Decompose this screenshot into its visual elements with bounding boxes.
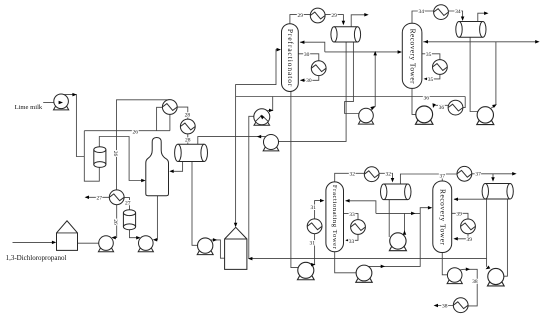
svg-text:29: 29 — [297, 13, 303, 19]
svg-text:30: 30 — [304, 52, 310, 58]
tower T2 Recovery Tower (top right) — [402, 23, 422, 88]
cylinder CB — [123, 210, 135, 230]
wire 1,3-dichloropropanol feed — [13, 241, 54, 243]
svg-text:37: 37 — [475, 171, 481, 177]
wire HX37 outlet header with branch to drum D37 — [472, 173, 515, 175]
pump P13 — [358, 108, 373, 124]
arrow compressor discharge — [269, 109, 273, 113]
wire tower T2 reboiler supply stream 35 — [422, 54, 440, 60]
wire pump P6f discharge riser through HX31 — [312, 234, 315, 265]
pump P10 — [487, 268, 504, 285]
svg-text:36: 36 — [424, 95, 430, 101]
wire lime milk inlet — [43, 102, 58, 104]
wire drum D32 bottoms to pump P8 — [388, 200, 390, 237]
pump P4 — [197, 238, 213, 255]
svg-text:1,3-Dichloropropanol: 1,3-Dichloropropanol — [6, 254, 67, 262]
svg-text:Lime milk: Lime milk — [15, 104, 43, 111]
heat exchanger X35 — [433, 60, 448, 75]
wire fractionator T3 feed stream 31 — [315, 201, 323, 219]
wire stream 26 vertical x=84.3 to drum CA bottom — [84, 131, 99, 182]
arrow tower T4 reflux — [454, 197, 458, 201]
compressor C1 — [254, 109, 270, 125]
pump P5m — [263, 134, 279, 150]
svg-text:38: 38 — [472, 279, 478, 285]
wire pump P5m suction from drum D29 bottom — [279, 42, 347, 141]
arrow P1 discharge — [72, 93, 76, 97]
wire HX38 product out stream 38 — [436, 305, 453, 307]
svg-text:38: 38 — [442, 304, 448, 310]
wire tower T4 bottoms to pump P9 — [442, 252, 447, 274]
wire HX34 outlet into drum D34 — [448, 11, 462, 20]
svg-text:34: 34 — [455, 9, 461, 15]
arrow pump P6f discharge — [311, 263, 315, 267]
arrow stream 27 out — [85, 196, 89, 200]
wire pump P5m to drum D28 top — [198, 137, 266, 145]
wire compressor discharge riser — [268, 97, 273, 111]
arrow into drum D29 — [342, 21, 346, 25]
pump P3 — [138, 236, 153, 252]
arrow vapor out right of HX37 line — [512, 172, 516, 176]
arrow into tower T3 feed — [320, 199, 324, 203]
svg-text:31: 31 — [310, 205, 316, 211]
wire pump P4 discharge to hopper left — [211, 240, 225, 258]
wire HX36 to pump P11 stream 36 — [433, 104, 448, 106]
wire drum D37 right leg to pump P10 right — [504, 199, 507, 276]
arrow product out right top — [535, 40, 539, 44]
wire tank to pump P2 — [78, 242, 99, 244]
arrow into tower T4 feed — [428, 206, 432, 210]
wire HX30 return stream 30 — [300, 76, 318, 81]
wire recovery tower T2 feed header y=51.9 — [325, 51, 401, 53]
arrow pump P7f discharge — [381, 265, 385, 269]
svg-text:35: 35 — [428, 77, 434, 83]
pump P9 — [447, 268, 462, 284]
wire HX27 right to cylinder CB — [124, 198, 130, 210]
wire drum D34 bottoms to pump P12 — [470, 37, 477, 112]
arrow tower T3 reflux — [345, 199, 349, 203]
heat exchanger X27 — [109, 190, 124, 205]
wire drum D29 vent — [351, 15, 367, 27]
heat exchanger X38 — [453, 298, 468, 313]
svg-text:Prefractionator: Prefractionator — [286, 29, 295, 87]
wire header right end into HX36 — [463, 97, 465, 108]
arrow stream 30 return into T1 — [300, 79, 304, 83]
wire drum D37 bottoms left leg to pump P10 — [486, 199, 488, 267]
wire tower T2 overhead stream 34 — [412, 11, 434, 23]
arrow into hopper right — [248, 257, 252, 261]
wire pump P12 discharge riser — [491, 42, 496, 108]
wire HX26 top header from pump line — [117, 100, 170, 190]
arrow pump P13 discharge — [370, 105, 376, 110]
drum CA vertical cylinder — [94, 147, 106, 168]
wire pump P13 discharge riser to feed header — [371, 53, 375, 110]
wire tower T3 reboiler supply stream 33 — [344, 214, 358, 220]
pump P7f — [356, 265, 372, 282]
svg-text:28: 28 — [185, 112, 191, 118]
wire drum CA top to bottle left nozzle — [99, 137, 144, 181]
wire drum D29 bottoms to pump P13 — [345, 42, 359, 114]
arrow into drum D37 — [491, 177, 495, 181]
heat exchanger X39 — [461, 219, 476, 234]
svg-text:39: 39 — [456, 212, 462, 218]
svg-text:32: 32 — [349, 171, 355, 177]
svg-text:26: 26 — [133, 130, 139, 136]
arrow into drum D32 — [391, 178, 395, 182]
arrow product 38 out — [434, 304, 438, 308]
heat exchanger X34 — [434, 5, 449, 20]
tower T3 Fractionating Tower — [326, 182, 344, 252]
svg-text:32: 32 — [385, 172, 391, 178]
svg-text:Recovery Tower: Recovery Tower — [408, 29, 417, 85]
pump P11 — [415, 106, 432, 124]
arrow on line into drum D28 — [257, 135, 261, 139]
heat exchanger X26 — [162, 100, 177, 115]
arrow into prefractionator feed — [277, 48, 281, 52]
wire compressor suction down to hopper right — [249, 116, 254, 258]
arrow into pump P10 left — [485, 265, 491, 270]
heat exchanger X36 — [448, 100, 463, 115]
wire tower T4 reboiler supply stream 39 — [452, 213, 468, 219]
arrow pump P9 discharge — [466, 268, 470, 272]
heat exchanger X29 — [310, 8, 325, 23]
wire HX27 left arrow line stream 27 — [86, 196, 109, 198]
arrow into bottle right — [169, 170, 173, 174]
arrow into hopper apex — [234, 223, 238, 227]
arrow into pump P2 top — [111, 236, 115, 240]
pump P8 — [389, 233, 406, 251]
arrow drum D34 vent out — [484, 11, 488, 15]
wire cylinder CB bottom to pump P3 — [130, 228, 140, 238]
svg-text:30: 30 — [306, 78, 312, 84]
wire pump P1 discharge up-right-down — [61, 95, 84, 157]
arrow pump P12 discharge — [492, 103, 498, 108]
tower T1 Prefractionator — [282, 24, 299, 92]
wire fractionator T3 bottoms to pump P7f — [335, 252, 357, 273]
svg-text:34: 34 — [419, 9, 425, 15]
wire HX27 bottom to pump P2 — [113, 205, 117, 238]
wire HX39 return stream 39 — [455, 234, 468, 239]
heat exchanger X32 — [364, 167, 379, 182]
wire pump P7f discharge to tower T4 feed — [365, 208, 431, 267]
heat exchanger X30 — [311, 61, 326, 76]
heat exchanger X28 — [180, 119, 195, 134]
arrow into bottle left — [141, 179, 145, 183]
svg-text:26: 26 — [112, 219, 118, 225]
wire HX26 right to HX28 stream 28 — [177, 107, 188, 119]
pump P2 — [98, 236, 113, 252]
pump P12 — [477, 107, 494, 125]
arrow pump P4 discharge — [213, 238, 217, 242]
svg-text:33: 33 — [349, 212, 355, 218]
pump P1 lime milk — [54, 94, 69, 110]
wire HX35 return stream 35 — [426, 74, 440, 79]
wire pump P8 discharge riser — [404, 213, 406, 233]
drum D37 — [482, 184, 513, 200]
wire prefractionator reflux y=42.2 — [300, 42, 325, 52]
svg-text:35: 35 — [426, 52, 432, 58]
wire drum D34 vent — [478, 13, 487, 21]
arrow pump P8 discharge up — [403, 230, 407, 234]
tank cone-roof (1,3-dichloropropanol) — [57, 221, 78, 251]
heat exchanger X33 — [351, 220, 366, 235]
hopper crystal tank — [225, 227, 247, 269]
wire prefractionator side reboiler supply stream 30 — [298, 54, 319, 61]
arrow stream 35 return into T2 — [424, 77, 428, 81]
arrow stream 39 return into T4 — [453, 237, 457, 241]
heat exchanger X37 — [457, 166, 472, 181]
arrow into pump P3 right — [153, 238, 157, 242]
wire HX26 bottom leg — [169, 115, 171, 131]
wire drum D32 vapor to HX37 header — [400, 174, 457, 184]
wire HX28 bottom to drum D28 — [187, 134, 189, 145]
wire bottle bottom to pump P3 — [154, 196, 157, 240]
svg-text:33: 33 — [349, 239, 355, 245]
wire pump P9 discharge to HX38 — [460, 269, 477, 306]
arrow into pump P3 top — [136, 236, 140, 240]
arrow prefractionator reflux — [300, 40, 304, 44]
tower T4 Recovery Tower (bottom right) — [433, 181, 452, 253]
wire HX33 return stream 33 — [346, 234, 358, 240]
drum D28 horizontal — [175, 144, 208, 161]
arrow into drum D34 — [461, 17, 465, 21]
wire branch down into drum D37 — [492, 174, 494, 181]
wire HX29 outlet into drum D29 — [325, 15, 343, 24]
arrow drum D29 vent out — [364, 13, 368, 16]
wire reflux product line y=41.8 — [423, 41, 538, 43]
drum D32 — [381, 184, 411, 200]
drum D29 — [331, 27, 361, 42]
svg-text:26: 26 — [112, 151, 118, 157]
wire tower T2 bottoms to pump P11 — [412, 88, 417, 114]
drum D34 — [456, 22, 486, 38]
arrow into pump P11 stream 36 — [431, 103, 436, 108]
svg-text:Fractionating Tower: Fractionating Tower — [331, 185, 338, 250]
wire drum D28 bottom to pump P4 — [192, 162, 198, 246]
svg-text:27: 27 — [125, 201, 131, 207]
svg-text:36: 36 — [439, 105, 445, 111]
heat exchanger X31 — [307, 219, 322, 234]
wire tower T4 overhead riser — [441, 174, 443, 181]
arrow into tower T2 feed — [398, 50, 402, 54]
pump P6f — [297, 262, 314, 279]
wire HX26 left leg — [157, 107, 163, 130]
wire prefractionator overhead stream 29 — [290, 15, 310, 24]
wire drum D28 bottom to bottle right nozzle — [171, 162, 183, 172]
bottle crystallizer vessel — [146, 138, 169, 196]
wire long recycle header y=258.6 — [249, 258, 487, 260]
svg-text:27: 27 — [97, 196, 103, 202]
wire header down to hopper apex — [235, 97, 237, 227]
wire prefractionator bottoms to pump P6f — [291, 91, 300, 267]
svg-text:31: 31 — [309, 240, 315, 246]
svg-text:28: 28 — [185, 138, 191, 144]
wire header to prefractionator feed — [236, 50, 280, 97]
svg-text:Recovery Tower: Recovery Tower — [439, 189, 448, 246]
svg-text:37: 37 — [440, 173, 446, 179]
arrow into tank — [52, 241, 56, 245]
wire HX32 outlet into drum D32 — [379, 173, 392, 181]
wire reflux product header of T3 — [346, 201, 421, 214]
wire main header H1 y=96.5 — [236, 96, 466, 98]
wire fractionator T3 overhead stream 32 — [335, 173, 365, 182]
arrow into P1 center — [59, 101, 63, 105]
svg-text:39: 39 — [467, 237, 473, 243]
wire tower T4 reflux y=199.2 — [454, 198, 487, 200]
wire stream 26 horizontal y=130.7 — [84, 130, 170, 132]
arrow T3 distillate forward — [411, 212, 415, 216]
arrow into tower T2 reflux — [424, 40, 428, 44]
arrow stream 33 return into T3 — [345, 239, 349, 243]
arrow feed junction up — [373, 51, 377, 55]
svg-text:29: 29 — [331, 13, 337, 19]
